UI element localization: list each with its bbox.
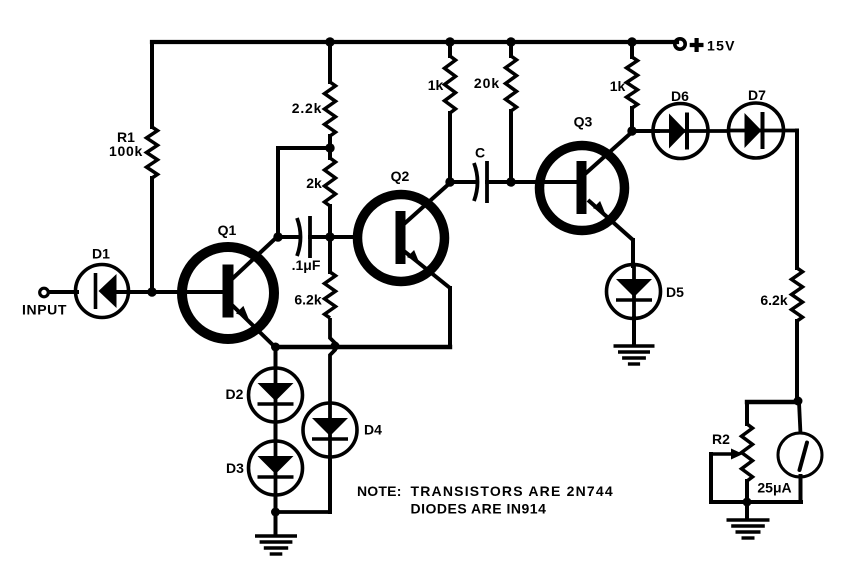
svg-text:6.2k: 6.2k [294,292,321,308]
wire [709,454,713,502]
diode D4 [303,403,357,457]
wire D4 bottom to ground node [276,510,331,514]
wire [49,290,77,294]
wire [278,235,298,239]
wire [274,422,278,441]
wire [310,235,360,239]
transistor Q1 [182,247,274,339]
svg-text:D2: D2 [226,386,244,402]
node Q1 collector [273,232,282,241]
node Q2 collector node [445,177,454,186]
wire [630,108,634,131]
node INPUT terminal [40,288,49,297]
resistor 2.2k [325,82,336,136]
potentiometer R2 [742,424,753,481]
svg-text:INPUT: INPUT [22,302,67,318]
svg-text:25μA: 25μA [757,480,791,496]
wire [274,512,278,534]
wire [487,180,578,184]
R2 wiper arrow [711,452,735,455]
resistor 20k [506,56,517,111]
ground (meter) [727,518,770,521]
wire [274,495,278,512]
wire [328,42,332,82]
wire [451,180,474,184]
wire meter bottom [747,500,801,504]
svg-text:D5: D5 [666,284,684,300]
wire [631,240,635,266]
wire [118,290,224,294]
wire [745,481,749,502]
meter M1 25μA [778,433,822,477]
resistor 1k [445,56,456,113]
wire [630,42,634,57]
svg-text:D4: D4 [364,422,382,438]
node meter top node [794,397,803,406]
svg-text:1k: 1k [428,77,444,93]
wire [632,318,636,344]
wire [632,129,658,133]
node R1-input junction [147,287,156,296]
resistor 6.2k [325,272,336,318]
transistor Q3 [540,146,625,231]
svg-text:D7: D7 [748,87,766,103]
wire [448,288,452,347]
wire emitter bus [275,345,450,349]
wire [509,42,513,56]
svg-text:2k: 2k [306,175,322,191]
resistor R1 100k [147,127,158,178]
wire [795,321,799,401]
wire [509,111,513,182]
capacitor C [474,163,478,201]
wire [745,402,749,424]
svg-text:R2: R2 [712,431,730,447]
wire 6.2k to D4 with jog [330,318,335,404]
ground (Q3 emitter) [614,344,655,347]
svg-text:C: C [475,145,485,161]
node rail-20k [506,37,515,46]
wire [745,502,749,518]
svg-text:DIODES ARE IN914: DIODES ARE IN914 [411,501,547,517]
wire [328,457,332,512]
wire [150,42,154,127]
wire [274,347,278,368]
capacitor .1μF [297,218,301,256]
resistor 1k (collector Q3) [627,57,638,108]
+15V terminal [675,39,685,49]
node 2.2k-2k junction [325,143,334,152]
diode D7 [729,103,784,158]
svg-text:NOTE:: NOTE: [357,483,402,499]
node rail-1k [445,37,454,46]
node rail-2.2k [325,37,334,46]
node ground node [271,508,280,517]
svg-text:1k: 1k [610,78,626,94]
node rail-1k2 [627,37,636,46]
ground (D3/D4) [255,534,297,537]
wire [711,500,747,504]
wire [278,146,330,150]
svg-text:Q1: Q1 [218,222,237,238]
diode D6 [653,104,708,159]
svg-text:D3: D3 [226,460,244,476]
diode D3 [249,441,303,495]
wire pot top [747,400,798,404]
transistor Q2 [358,195,445,282]
svg-text:.1μF: .1μF [292,257,321,273]
svg-text:D1: D1 [92,246,110,262]
svg-text:TRANSISTORS ARE 2N744: TRANSISTORS ARE 2N744 [411,483,614,499]
diode D5 [607,265,661,319]
wire [150,178,154,292]
svg-text:15V: 15V [707,38,736,54]
resistor 6.2k (right) [792,268,803,321]
wire [448,113,452,182]
wire [799,476,803,502]
wire [276,148,280,236]
resistor 2k [325,158,336,206]
wire +15V supply rail [152,40,677,44]
node Q1 emitter junction [271,343,280,352]
node emitter junction [331,342,340,351]
diode D1 [76,265,129,318]
node base node Q2 [325,232,334,241]
node Q3 base node [506,177,515,186]
svg-text:D6: D6 [671,88,689,104]
node Q3 collector node [627,126,636,135]
svg-text:Q2: Q2 [391,168,410,184]
svg-text:20k: 20k [474,75,500,91]
wire [328,206,332,272]
svg-text:Q3: Q3 [574,114,593,130]
svg-text:2.2k: 2.2k [292,100,322,116]
svg-text:100k: 100k [109,143,143,159]
wire meter top [799,402,801,434]
diode D2 [249,368,303,422]
node pot bottom node [743,498,752,507]
wire [328,136,332,158]
wire [795,131,799,269]
svg-text:6.2k: 6.2k [760,292,787,308]
wire [448,42,452,56]
